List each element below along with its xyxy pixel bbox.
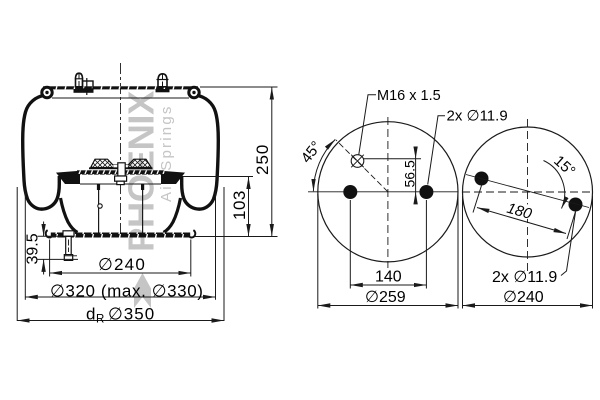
svg-text:140: 140	[375, 269, 402, 286]
svg-text:∅350: ∅350	[108, 304, 155, 323]
top bead plate	[43, 86, 198, 89]
piston top plate	[77, 170, 165, 184]
bellows clamp wedge right	[161, 171, 185, 184]
bottom stud	[63, 231, 77, 261]
svg-text:∅240: ∅240	[98, 255, 146, 274]
svg-text:∅240: ∅240	[503, 289, 544, 306]
stud S1 bracket	[83, 78, 94, 95]
dimension 180	[473, 186, 576, 240]
vertical centerline right circle	[527, 119, 529, 271]
line under bead plate	[52, 97, 189, 99]
svg-text:2x ∅11.9: 2x ∅11.9	[447, 108, 508, 125]
15 deg arc	[544, 161, 565, 209]
dimension 39.5	[25, 222, 79, 275]
left circle D259	[318, 122, 458, 262]
svg-text:Air Springs: Air Springs	[158, 104, 175, 202]
45 deg arc	[313, 139, 335, 191]
dimension D320 max D330	[25, 190, 215, 300]
dimension D240	[50, 240, 191, 277]
hole left circle right	[419, 185, 433, 199]
hole right circle lower-right	[569, 198, 583, 212]
label M16 x 1.5	[359, 88, 441, 155]
dimension dR D350	[17, 187, 224, 326]
label 2x D11.9 top	[428, 108, 508, 185]
center line	[120, 63, 122, 237]
svg-text:R: R	[96, 314, 104, 326]
stud S2	[156, 74, 170, 93]
piston pedestal wall right	[142, 185, 144, 233]
hole axis line	[466, 175, 589, 208]
svg-text:250: 250	[253, 144, 272, 175]
bellows skirt left	[61, 198, 78, 232]
bellows outline right	[182, 96, 219, 210]
stud S1	[74, 73, 94, 93]
hole right circle upper-left	[475, 172, 489, 186]
dimension 140	[350, 200, 426, 289]
rolled edge right	[189, 87, 199, 97]
svg-text:39.5: 39.5	[25, 233, 42, 264]
svg-text:56.5: 56.5	[402, 160, 418, 187]
svg-text:103: 103	[230, 190, 249, 220]
bellows outline left	[23, 96, 60, 210]
dimension D240 right view	[463, 196, 593, 309]
dimension D259	[318, 194, 458, 309]
bellows skirt right	[164, 198, 181, 232]
pedestal weld bump	[98, 204, 102, 208]
bottom plate	[46, 230, 196, 237]
horizontal centerline right circle	[462, 191, 593, 193]
dimension 56.5	[363, 147, 421, 204]
hole left circle left	[343, 185, 357, 199]
watermark logo arrow	[134, 273, 151, 308]
svg-text:∅259: ∅259	[365, 289, 406, 306]
right circle D240	[463, 127, 593, 257]
svg-text:2x ∅11.9: 2x ∅11.9	[492, 269, 557, 286]
piston center bolt	[115, 163, 127, 185]
horizontal centerline left circle	[308, 191, 458, 193]
dimension 250	[195, 87, 278, 237]
rolled edge left	[42, 87, 52, 97]
svg-text:d: d	[86, 304, 95, 323]
rubber bumper	[89, 159, 153, 169]
svg-text:∅320 (max. ∅330): ∅320 (max. ∅330)	[50, 281, 204, 300]
45 deg dashed line	[336, 140, 388, 192]
dimension 103	[183, 177, 253, 237]
label 2x D11.9 bottom	[492, 212, 576, 286]
vertical centerline left circle	[387, 117, 389, 268]
M16 fitting	[351, 155, 364, 168]
svg-text:M16 x 1.5: M16 x 1.5	[377, 88, 441, 104]
bellows clamp wedge left	[56, 171, 80, 184]
piston pedestal wall left	[98, 185, 100, 233]
